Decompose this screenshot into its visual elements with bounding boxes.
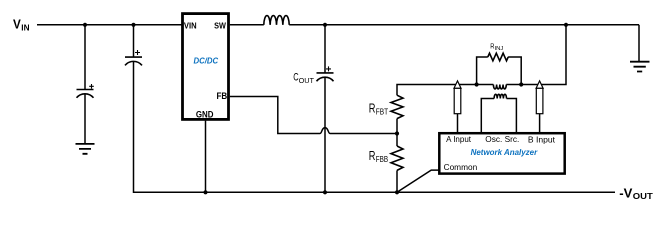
svg-text:Common: Common — [444, 163, 478, 172]
svg-text:V: V — [13, 17, 21, 32]
svg-text:R: R — [369, 149, 376, 163]
svg-text:VIN: VIN — [184, 21, 197, 30]
svg-text:-V: -V — [619, 185, 632, 200]
svg-text:OUT: OUT — [299, 78, 315, 85]
svg-text:FBT: FBT — [376, 108, 388, 117]
svg-text:OUT: OUT — [633, 192, 653, 201]
svg-text:R: R — [369, 102, 376, 116]
svg-text:B Input: B Input — [528, 136, 556, 145]
svg-text:IN: IN — [21, 23, 29, 32]
svg-text:FBB: FBB — [376, 155, 388, 164]
svg-text:Osc. Src.: Osc. Src. — [485, 135, 519, 144]
svg-text:GND: GND — [196, 110, 214, 121]
svg-text:DC/DC: DC/DC — [194, 56, 219, 66]
svg-text:A Input: A Input — [446, 135, 472, 144]
svg-text:FB: FB — [217, 91, 228, 101]
svg-text:SW: SW — [214, 21, 226, 30]
svg-text:INJ: INJ — [495, 46, 504, 52]
svg-text:Network Analyzer: Network Analyzer — [471, 147, 538, 157]
